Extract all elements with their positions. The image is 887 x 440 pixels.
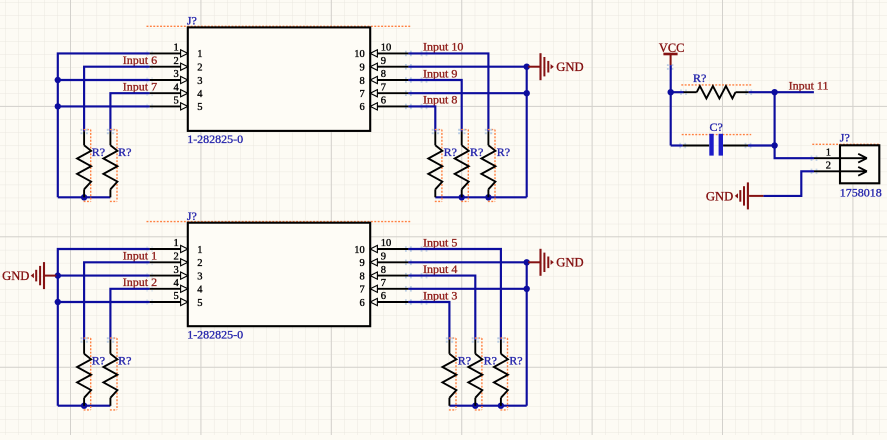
resistor R? xyxy=(448,340,450,354)
junction xyxy=(524,286,530,292)
svg-text:8: 8 xyxy=(360,76,365,87)
svg-text:Input 6: Input 6 xyxy=(123,53,157,67)
J1 pin 7 xyxy=(360,82,409,100)
wire Input 3 to R8 xyxy=(408,302,449,340)
wire GND drop xyxy=(526,67,528,198)
J2 pin 2 xyxy=(150,252,203,270)
resistor R1 xyxy=(83,131,85,145)
J2 pin 4 xyxy=(150,278,204,296)
junction xyxy=(55,272,61,278)
svg-text:R?: R? xyxy=(458,353,471,367)
resistor R1 marker xyxy=(90,130,92,202)
resistor marker xyxy=(481,338,483,410)
wire rail bottom-right bank xyxy=(449,405,526,407)
svg-text:GND: GND xyxy=(706,189,733,203)
resistor R6 xyxy=(83,340,85,354)
J1 pin 6 xyxy=(360,96,409,114)
svg-text:9: 9 xyxy=(360,63,365,74)
power port VCC xyxy=(659,41,684,70)
resistor R2 xyxy=(109,131,111,145)
wire J2.3 xyxy=(58,275,150,277)
J3 pin 1 xyxy=(814,147,867,162)
editor snap marks xyxy=(146,51,153,57)
junction xyxy=(524,259,530,265)
svg-text:Input 7: Input 7 xyxy=(123,80,157,94)
resistor R? xyxy=(500,340,502,354)
J1 pin 4 xyxy=(150,82,204,100)
junction xyxy=(55,103,61,109)
wire Input 1 to R6 xyxy=(84,262,150,340)
svg-text:2: 2 xyxy=(173,56,178,67)
junction xyxy=(524,63,530,69)
resistor R7 marker xyxy=(116,338,118,410)
svg-text:GND: GND xyxy=(556,256,583,270)
resistor marker xyxy=(455,338,457,410)
junction xyxy=(55,299,61,305)
J2 pin 8 xyxy=(360,265,409,283)
svg-text:3: 3 xyxy=(173,69,178,80)
junction xyxy=(81,194,87,200)
junction xyxy=(668,89,674,95)
svg-text:5: 5 xyxy=(173,96,178,107)
wire J2.9 to GND node xyxy=(408,261,526,263)
svg-text:R?: R? xyxy=(444,145,457,159)
svg-text:3: 3 xyxy=(173,265,178,276)
junction xyxy=(81,403,87,409)
junction xyxy=(498,403,504,409)
svg-text:R?: R? xyxy=(92,353,105,367)
junction xyxy=(771,89,777,95)
power port GND (bottom) xyxy=(528,261,540,263)
svg-text:R?: R? xyxy=(497,145,510,159)
resistor R? xyxy=(434,131,436,145)
J1 pin 9 xyxy=(360,56,409,74)
resistor R7 xyxy=(109,340,111,354)
wire J3.2 to GND xyxy=(763,171,814,196)
svg-text:Input 8: Input 8 xyxy=(423,93,457,107)
J2 pin 5 xyxy=(150,291,203,309)
svg-text:1-282825-0: 1-282825-0 xyxy=(187,328,243,342)
svg-text:C?: C? xyxy=(710,120,723,134)
wire J2.7 to GND node xyxy=(408,288,526,290)
wire Input 9 to R4 xyxy=(408,80,461,131)
svg-text:8: 8 xyxy=(381,69,386,80)
junction xyxy=(524,90,530,96)
svg-text:10: 10 xyxy=(354,245,365,256)
resistor marker xyxy=(467,130,469,202)
wire Input 8 to R3 xyxy=(408,106,435,131)
wire J1.7 to GND node xyxy=(408,92,526,94)
resistor marker xyxy=(441,130,443,202)
wire rail bottom-left bank xyxy=(58,405,111,407)
svg-text:R?: R? xyxy=(484,353,497,367)
resistor marker xyxy=(507,338,509,410)
J1 pin 1 xyxy=(150,43,203,61)
svg-text:10: 10 xyxy=(381,43,392,54)
wire J1.5 xyxy=(58,105,150,107)
svg-text:2: 2 xyxy=(173,252,178,263)
junction xyxy=(472,403,478,409)
svg-text:Input 3: Input 3 xyxy=(423,288,457,302)
svg-text:9: 9 xyxy=(381,252,386,263)
J1 pin 8 xyxy=(360,69,409,87)
svg-text:2: 2 xyxy=(197,63,202,74)
resistor marker xyxy=(494,130,496,202)
svg-text:5: 5 xyxy=(197,298,202,309)
svg-text:R?: R? xyxy=(92,145,105,159)
svg-text:1: 1 xyxy=(826,147,831,158)
svg-text:4: 4 xyxy=(173,278,179,289)
wire R11 to Input 11 node xyxy=(749,91,775,93)
wire Input 5 to R10 xyxy=(408,249,501,340)
svg-text:1: 1 xyxy=(173,238,178,249)
svg-text:9: 9 xyxy=(381,56,386,67)
svg-text:6: 6 xyxy=(360,102,365,113)
connector J1 selection marker xyxy=(147,25,412,27)
svg-text:R?: R? xyxy=(509,353,522,367)
svg-text:10: 10 xyxy=(354,49,365,60)
svg-text:Input 1: Input 1 xyxy=(123,249,157,263)
resistor R? xyxy=(474,340,476,354)
svg-text:4: 4 xyxy=(197,89,203,100)
svg-text:10: 10 xyxy=(381,238,392,249)
svg-text:Input 10: Input 10 xyxy=(423,40,463,54)
wire Input 11 stub xyxy=(775,91,814,93)
resistor R? xyxy=(487,131,489,145)
svg-text:5: 5 xyxy=(197,102,202,113)
J2 pin 3 xyxy=(150,265,203,283)
J3 pin 2 xyxy=(814,161,867,176)
J2 pin 7 xyxy=(360,278,409,296)
svg-text:6: 6 xyxy=(381,96,386,107)
resistor R? xyxy=(461,131,463,145)
svg-text:Input 5: Input 5 xyxy=(423,235,457,249)
resistor R6 marker xyxy=(90,338,92,410)
wire Input 6 to R1 xyxy=(84,67,150,132)
wire node down to C xyxy=(670,92,672,145)
connector J3 selection marker xyxy=(812,143,880,145)
connector J2 selection marker xyxy=(147,221,412,223)
svg-text:R?: R? xyxy=(118,145,131,159)
svg-text:7: 7 xyxy=(381,278,386,289)
power port GND (top) xyxy=(528,66,540,68)
wire Input 10 to R5 xyxy=(408,53,488,131)
wire J2.1/3/5 bus xyxy=(58,249,150,406)
wire J1.1/3/5 bus xyxy=(58,53,150,197)
svg-text:7: 7 xyxy=(360,89,365,100)
svg-text:1758018: 1758018 xyxy=(840,186,882,200)
svg-text:5: 5 xyxy=(173,291,178,302)
J1 pin 3 xyxy=(150,69,203,87)
capacitor C1 marker xyxy=(682,134,752,136)
wire J2.5 xyxy=(58,301,150,303)
resistor R2 marker xyxy=(116,130,118,202)
wire Input 2 to R7 xyxy=(110,289,149,340)
capacitor C1 xyxy=(671,134,775,156)
junction xyxy=(485,194,491,200)
svg-text:2: 2 xyxy=(826,161,831,172)
svg-text:4: 4 xyxy=(173,82,179,93)
wire Input 4 to R9 xyxy=(408,276,475,340)
J2 pin 9 xyxy=(360,252,409,270)
svg-text:J?: J? xyxy=(187,209,197,223)
svg-text:7: 7 xyxy=(360,285,365,296)
svg-text:Input 2: Input 2 xyxy=(123,275,157,289)
power port GND (left) xyxy=(44,275,56,277)
svg-text:1-282825-0: 1-282825-0 xyxy=(187,132,243,146)
svg-text:GND: GND xyxy=(2,269,29,283)
svg-text:9: 9 xyxy=(360,258,365,269)
wire Input 7 to R2 xyxy=(110,93,149,131)
connector J3 body xyxy=(840,145,879,183)
svg-text:3: 3 xyxy=(197,271,202,282)
svg-text:J?: J? xyxy=(187,14,197,28)
svg-text:8: 8 xyxy=(360,271,365,282)
svg-text:6: 6 xyxy=(381,291,386,302)
resistor R11 marker xyxy=(681,84,751,86)
svg-text:Input 4: Input 4 xyxy=(423,262,457,276)
svg-text:Input 9: Input 9 xyxy=(423,66,457,80)
svg-text:2: 2 xyxy=(197,258,202,269)
svg-text:1: 1 xyxy=(197,245,202,256)
junction xyxy=(55,77,61,83)
svg-text:GND: GND xyxy=(556,60,583,74)
J1 pin 2 xyxy=(150,56,203,74)
wire J1.3 xyxy=(58,79,150,81)
J2 pin 10 xyxy=(354,238,408,256)
svg-text:R?: R? xyxy=(470,145,483,159)
svg-text:R?: R? xyxy=(118,353,131,367)
junction xyxy=(459,194,465,200)
svg-text:1: 1 xyxy=(173,43,178,54)
svg-text:R?: R? xyxy=(693,71,706,85)
svg-text:7: 7 xyxy=(381,82,386,93)
wire GND drop bottom xyxy=(526,262,528,405)
svg-text:4: 4 xyxy=(197,285,203,296)
wire node to J3.1 xyxy=(775,92,814,158)
wire J1.9 to GND node xyxy=(408,66,526,68)
svg-text:8: 8 xyxy=(381,265,386,276)
connector J2 body xyxy=(188,223,370,327)
svg-text:3: 3 xyxy=(197,76,202,87)
svg-text:Input 11: Input 11 xyxy=(789,79,829,93)
J1 pin 10 xyxy=(354,43,408,61)
junction xyxy=(771,142,777,148)
J2 pin 6 xyxy=(360,291,409,309)
J2 pin 1 xyxy=(150,238,203,256)
svg-text:6: 6 xyxy=(360,298,365,309)
wire VCC to node xyxy=(670,65,672,92)
wire rail top-right bank xyxy=(435,196,526,198)
connector J1 body xyxy=(188,27,370,130)
resistor R11 xyxy=(671,91,684,93)
svg-text:J?: J? xyxy=(840,130,850,144)
J1 pin 5 xyxy=(150,96,203,114)
power port GND (right) xyxy=(706,182,763,209)
wire rail top-left bank xyxy=(58,196,111,198)
svg-text:1: 1 xyxy=(197,49,202,60)
